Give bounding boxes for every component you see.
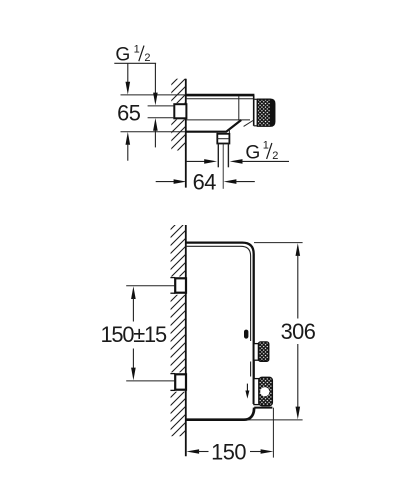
button slot	[244, 330, 248, 339]
svg-text:2: 2	[144, 52, 150, 64]
faucet body bottom edge with chamfer	[186, 120, 241, 132]
extension line body bottom (65 dim)	[121, 131, 186, 133]
svg-text:G: G	[115, 44, 130, 65]
faucet body secondary chamfer	[244, 121, 253, 127]
svg-text:306: 306	[281, 319, 316, 344]
dimension 64 right arrow	[224, 179, 255, 184]
faucet body top edge	[186, 94, 255, 97]
dimension 150 arrows and line	[186, 449, 273, 454]
knurled handle knob (top view)	[257, 99, 274, 126]
outlet G1/2 leader right arrow with underline	[230, 159, 289, 164]
nipple extension line top	[148, 105, 175, 107]
arrow up to nipple bottom (G1/2 leader)	[153, 118, 158, 147]
svg-text:1: 1	[263, 140, 269, 152]
shelf plate outer outline	[186, 243, 254, 404]
shelf plate bottom edge with relief curve	[186, 408, 254, 420]
wall face line (top view)	[185, 79, 187, 188]
printed indicator arrow	[245, 384, 249, 399]
extension line lower union center	[126, 380, 174, 382]
faucet body inner top line	[186, 98, 254, 100]
label G 1/2 (outlet)	[245, 140, 278, 164]
faucet body seam	[238, 96, 240, 120]
arrow up to body bottom (65 dim)	[126, 132, 131, 161]
upper wall union bracket	[170, 278, 186, 294]
outlet pipe	[218, 144, 228, 168]
svg-text:150±15: 150±15	[101, 322, 167, 347]
dimension 64 left arrow	[156, 179, 187, 184]
label underline / leader (top G1/2)	[114, 62, 156, 64]
wall face line (bottom view)	[185, 225, 187, 456]
lower knob flange	[254, 379, 259, 405]
label G 1/2 (top)	[115, 44, 150, 66]
svg-text:65: 65	[117, 100, 141, 125]
lower wall union bracket	[170, 374, 186, 391]
arrow down to nipple top (G1/2 leader)	[153, 63, 158, 105]
faucet body inner mid line	[186, 119, 250, 121]
knob housing bottom	[254, 407, 272, 409]
inlet nipple G1/2	[174, 104, 186, 118]
svg-text:150: 150	[211, 439, 246, 464]
extension line body top (65 dim)	[121, 94, 186, 96]
arrow down to body top (65 dim)	[126, 63, 131, 94]
extension line upper union center	[126, 285, 174, 287]
shelf plate inner outline	[186, 246, 251, 376]
wall hatching (bottom view)	[170, 225, 186, 436]
outlet G1/2 leader left arrow	[186, 159, 217, 164]
svg-text:G: G	[245, 143, 260, 164]
upper knurled tab flange	[254, 344, 259, 361]
svg-text:2: 2	[272, 150, 278, 162]
dimension 150±15 arrows and line	[131, 286, 136, 380]
dimension 306 arrows and line	[296, 243, 301, 419]
extension line 306 top	[254, 242, 303, 244]
nipple extension line bottom	[148, 117, 175, 119]
wall hatching (top view)	[170, 79, 186, 151]
svg-text:1: 1	[134, 44, 140, 56]
svg-text:64: 64	[193, 169, 217, 194]
knob neck	[254, 99, 258, 126]
upper knurled tab	[259, 342, 269, 361]
extension line 150 right	[272, 408, 274, 458]
outlet fitting connectors	[217, 129, 229, 134]
lower control knob	[259, 377, 273, 405]
extension line 306 bottom / plate bottom extended	[247, 419, 303, 421]
outlet fitting G1/2	[217, 134, 229, 144]
faucet body right edge	[253, 95, 255, 126]
outlet pipe centerline	[222, 144, 224, 189]
